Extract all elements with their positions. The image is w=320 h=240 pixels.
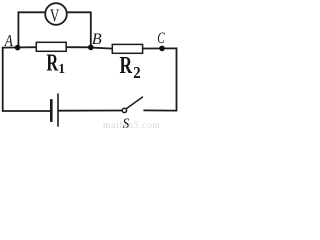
svg-text:R: R — [120, 51, 133, 78]
svg-text:A: A — [4, 32, 14, 51]
svg-text:V: V — [50, 7, 60, 27]
svg-text:C: C — [157, 29, 165, 46]
svg-text:maifen5.com: maifen5.com — [103, 120, 161, 129]
svg-text:1: 1 — [58, 61, 65, 76]
svg-text:2: 2 — [133, 64, 140, 82]
svg-text:B: B — [92, 31, 102, 48]
svg-text:R: R — [46, 51, 58, 77]
